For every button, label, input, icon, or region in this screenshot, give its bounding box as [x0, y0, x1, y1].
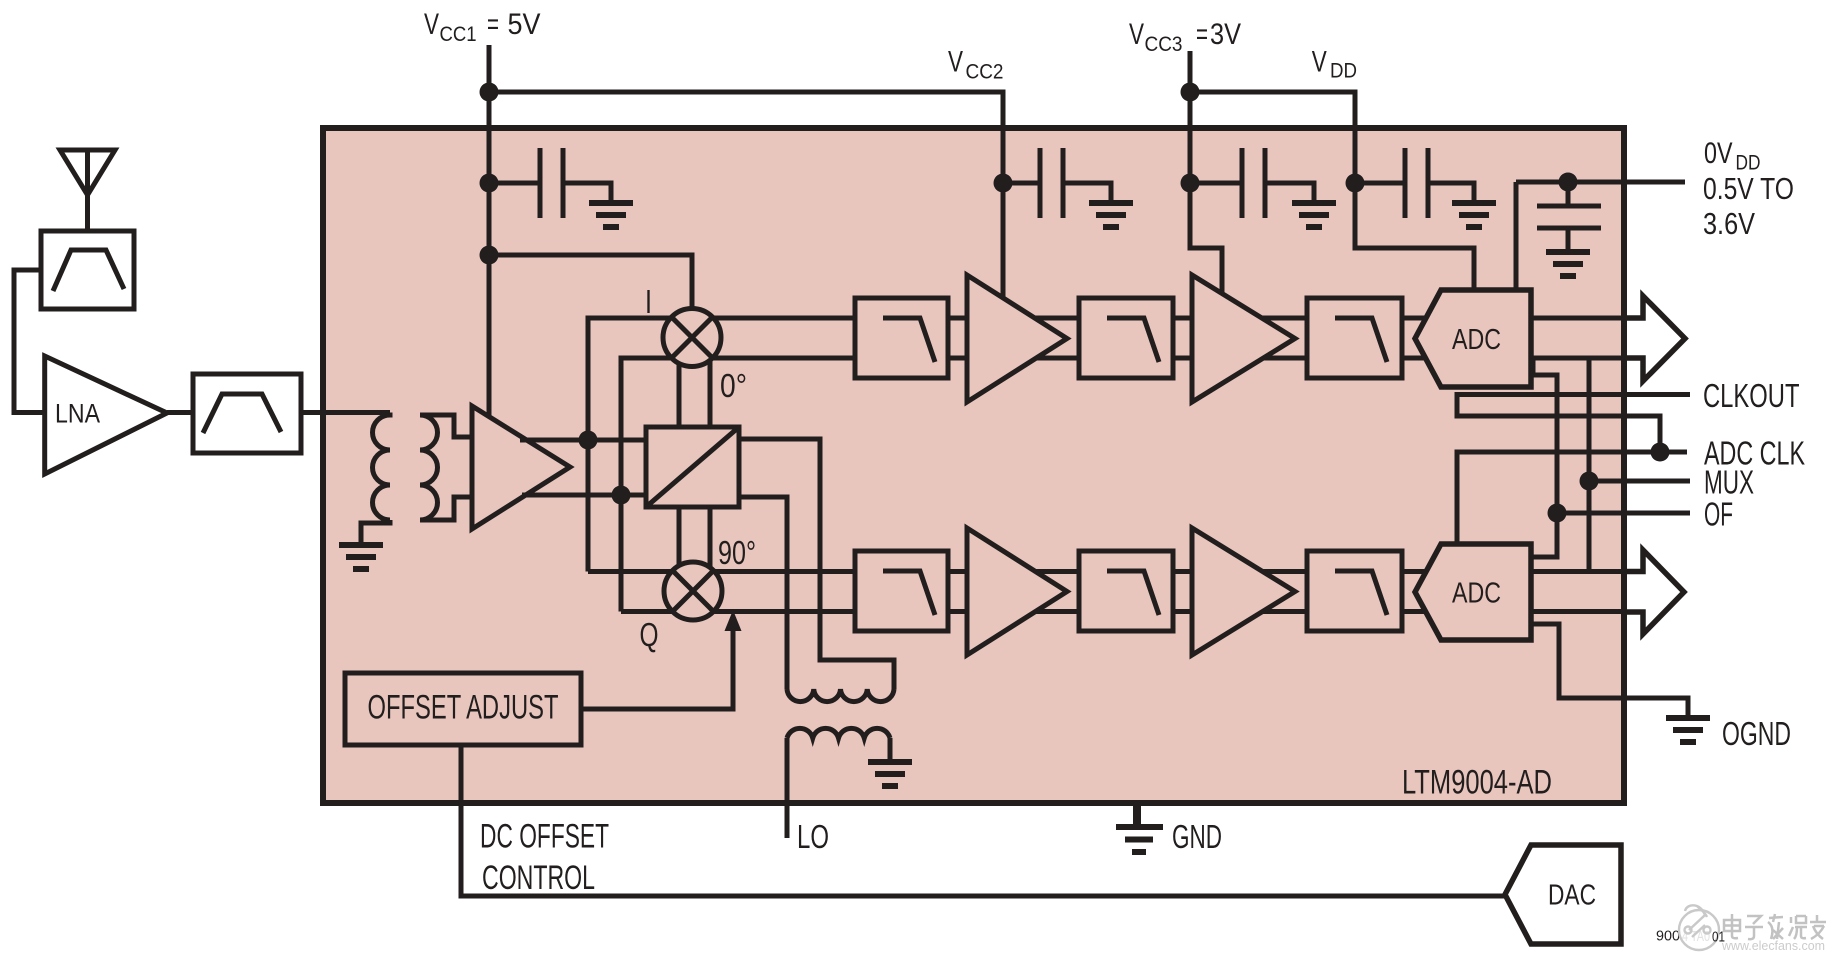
- svg-text:90°: 90°: [718, 534, 756, 571]
- svg-text:LO: LO: [797, 818, 829, 855]
- svg-text:Q: Q: [640, 616, 659, 653]
- svg-text:0.5V TO: 0.5V TO: [1703, 171, 1794, 206]
- svg-text:ADC: ADC: [1452, 578, 1501, 610]
- svg-text:LTM9004-AD: LTM9004-AD: [1402, 763, 1552, 801]
- svg-text:LNA: LNA: [55, 398, 100, 428]
- svg-text:0°: 0°: [720, 367, 747, 404]
- svg-text:CLKOUT: CLKOUT: [1703, 377, 1800, 414]
- svg-text:0V: 0V: [1704, 137, 1733, 170]
- svg-text:3V: 3V: [1210, 18, 1241, 51]
- svg-text:OFFSET ADJUST: OFFSET ADJUST: [368, 688, 559, 726]
- svg-text:DC OFFSET: DC OFFSET: [480, 817, 609, 855]
- svg-text:900: 900: [1656, 929, 1680, 945]
- svg-text:=: =: [487, 8, 499, 41]
- svg-text:CONTROL: CONTROL: [482, 859, 595, 897]
- svg-text:www.elecfans.com: www.elecfans.com: [1721, 939, 1825, 953]
- svg-text:GND: GND: [1172, 818, 1222, 855]
- svg-text:I: I: [645, 283, 652, 320]
- svg-text:5V: 5V: [508, 8, 541, 41]
- svg-text:V: V: [1312, 46, 1327, 79]
- svg-text:=: =: [1196, 18, 1208, 51]
- svg-text:DD: DD: [1330, 60, 1357, 83]
- svg-text:ADC: ADC: [1452, 324, 1501, 356]
- svg-text:V: V: [1129, 18, 1144, 51]
- svg-text:OGND: OGND: [1722, 715, 1791, 752]
- svg-text:3.6V: 3.6V: [1703, 206, 1755, 241]
- svg-text:DAC: DAC: [1548, 880, 1596, 912]
- svg-text:OF: OF: [1704, 496, 1733, 533]
- svg-text:V: V: [424, 8, 439, 41]
- svg-text:V: V: [948, 46, 963, 79]
- svg-text:4 TA0: 4 TA0: [1682, 929, 1710, 945]
- svg-text:CC1: CC1: [440, 23, 477, 46]
- svg-text:CC3: CC3: [1145, 33, 1183, 56]
- svg-text:CC2: CC2: [966, 61, 1004, 84]
